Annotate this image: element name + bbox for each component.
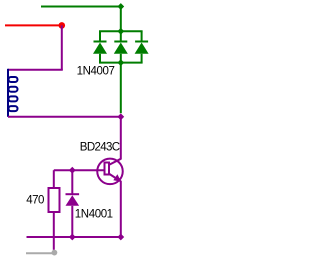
node top corner junction (117, 3, 124, 10)
wire purple collector vertical (120, 117, 122, 160)
wire purple bottom bus from inductor (8, 116, 121, 118)
node junction base/diode (69, 167, 76, 174)
svg-text:1N4001: 1N4001 (75, 208, 113, 220)
diode D2 1N4007 (middle) (114, 31, 128, 62)
wire base horizontal (54, 169, 104, 171)
ground node dot (52, 250, 58, 256)
wire resistor bottom lead to ground (53, 212, 55, 250)
wire top green horizontal (41, 6, 121, 8)
wire green vertical from top corner to diode array (120, 7, 122, 32)
wire resistor top lead (53, 170, 55, 188)
wire purple vertical from red dot (61, 25, 63, 69)
diode D3 1N4007 (right) (135, 31, 149, 62)
wire red supply line (5, 24, 62, 26)
wire diode array top rail (99, 30, 143, 32)
svg-text:1N4007: 1N4007 (77, 65, 115, 77)
node junction diode/bus (69, 234, 76, 241)
wire bottom bus (27, 236, 121, 238)
node junction on top rail (117, 28, 124, 35)
wire purple horizontal to inductor top (8, 69, 63, 71)
node junction on bottom rail (117, 59, 124, 66)
node purple junction inductor/collector (117, 113, 124, 120)
resistor R1 470 (49, 188, 60, 212)
svg-text:470: 470 (26, 194, 44, 206)
ground rail (26, 252, 54, 254)
inductor L1 (8, 69, 18, 117)
node red junction dot (59, 22, 66, 29)
node junction emitter/bus (117, 234, 124, 241)
wire diode array bottom rail (99, 62, 143, 64)
diode D4 1N4001 (66, 170, 80, 237)
transistor Q1 BD243C (97, 159, 123, 185)
wire green vertical from diode array down (120, 63, 122, 114)
wire emitter vertical (120, 181, 122, 237)
diode D1 1N4007 (left) (93, 31, 107, 62)
svg-text:BD243C: BD243C (80, 141, 120, 153)
